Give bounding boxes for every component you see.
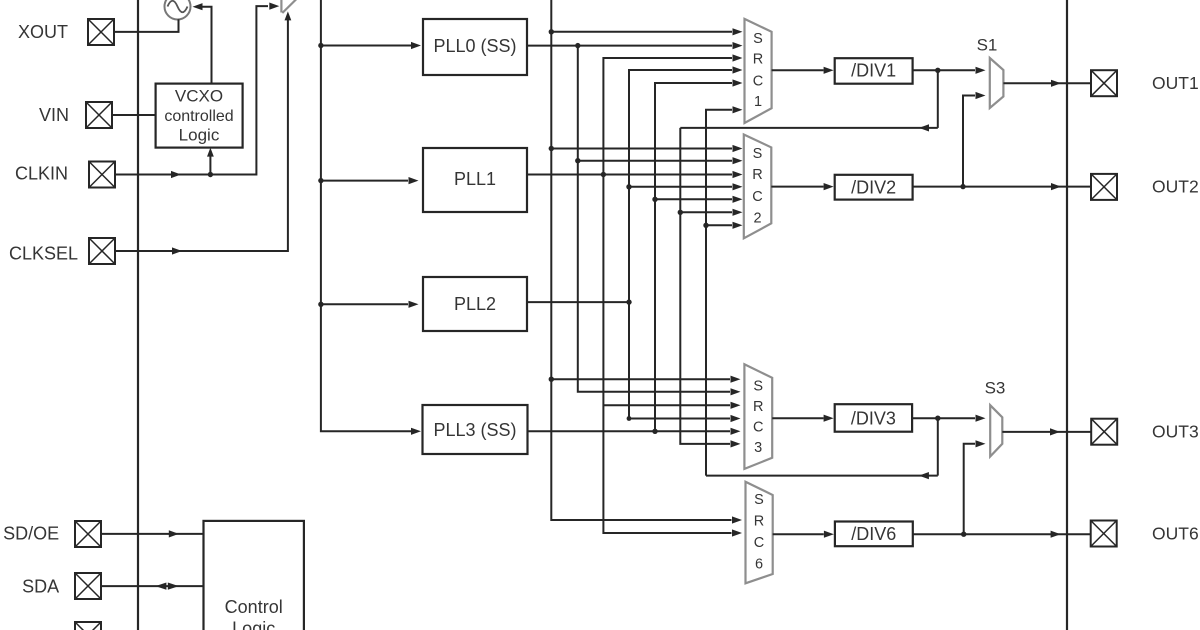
clock select switch [281,0,296,13]
junction ref/PLL2 [318,302,323,307]
reference clock bus to SRC muxes [551,0,742,524]
svg-text:S: S [753,146,763,162]
PLL2 block [423,277,527,331]
wire PLL0 drop to SRC3 [578,46,741,396]
wire PLL1 output to SRC2 [527,171,743,178]
pin CLKIN [89,162,115,188]
wire PLL1 riser to SRC1 [603,54,742,174]
junction ref/SRC1 [549,29,554,34]
label OUT1 [1152,73,1199,93]
wire ref to SRC2 [551,145,742,152]
PLL1 block [423,148,527,212]
junction CLKIN / VCXO input [208,172,213,177]
Control Logic block [204,521,304,630]
junction PLL1 bus [601,172,606,177]
mux SRC2 [744,135,772,239]
wire PLL0 to SRC2 [578,157,743,164]
pin OUT2 [1091,174,1117,200]
svg-text:VCXO: VCXO [175,87,223,106]
junction ref/SRC3 [549,377,554,382]
svg-text:Logic: Logic [179,125,220,144]
divider /DIV3 [835,404,912,432]
pin SDA [75,573,101,599]
wire PLL3 riser to SRC1 [655,79,743,431]
svg-text:XOUT: XOUT [18,22,68,42]
wire PLL1 branch to SRC3 [603,402,740,409]
wire S1 to OUT1 [1003,80,1091,87]
svg-text:controlled: controlled [164,108,233,125]
label OUT2 [1152,177,1199,197]
wire S3 to OUT3 [1002,428,1091,435]
svg-text:C: C [752,189,762,205]
pin OUT6 [1091,521,1117,547]
divider /DIV6 [835,522,913,547]
label OUT3 [1152,422,1199,442]
wire S1 feedback left [680,124,938,131]
svg-text:/DIV6: /DIV6 [851,524,896,544]
svg-text:SDA: SDA [22,576,59,596]
svg-text:6: 6 [755,557,763,573]
wire SD/OE to control logic [101,530,204,537]
wire S1 feedback down [937,70,939,128]
mux SRC3 [744,364,772,469]
pin VIN [86,102,112,128]
label S1 [977,35,998,54]
wire ref to SRC1 [551,28,742,35]
junction PLL0/SRC2 [575,158,580,163]
wire S3 feedback left [706,472,938,479]
svg-text:PLL1: PLL1 [454,169,496,189]
svg-text:PLL2: PLL2 [454,294,496,314]
svg-text:OUT2: OUT2 [1152,177,1199,197]
junction PLL2 bus [626,299,631,304]
junction ref/PLL0 [318,43,323,48]
divider /DIV1 [835,58,913,83]
svg-text:R: R [752,167,762,183]
junction /DIV2 output [960,184,965,189]
svg-text:CLKSEL: CLKSEL [9,244,78,264]
wire ref to PLL0 input [321,42,421,49]
wire S3 feedback down [937,418,939,475]
svg-text:PLL3 (SS): PLL3 (SS) [433,420,516,440]
svg-text:3: 3 [754,440,762,456]
label SD/OE [3,523,59,543]
svg-text:PLL0 (SS): PLL0 (SS) [433,36,516,56]
wire PLL2 output [527,301,629,303]
pin CLKSEL [89,238,115,264]
mux SRC1 [745,19,772,123]
pin XOUT [88,19,114,45]
label SDA [22,576,59,596]
svg-text:C: C [753,73,763,89]
VCXO controlled Logic block [156,84,243,148]
wire PLL3 output to SRC3 [527,428,741,435]
mux S3 [990,405,1002,456]
chip boundary left edge [137,0,139,630]
svg-text:S1: S1 [977,35,998,54]
junction ref/PLL1 [318,178,323,183]
wire feedback branch to SRC2 input7 [706,222,743,229]
label VIN [39,105,69,125]
svg-text:C: C [753,419,763,435]
label OUT6 [1152,524,1199,544]
wire SDA to control logic [101,583,204,590]
wire ref to PLL2 input [321,301,419,308]
junction feedback/SRC2 input7 [703,223,708,228]
crystal oscillator [165,0,191,20]
junction /DIV1 output [935,68,940,73]
pin SCL (clipped) [75,622,101,630]
pin SD/OE [75,521,101,547]
svg-text:S3: S3 [985,378,1006,397]
svg-text:C: C [754,535,764,551]
junction PLL2/SRC2 [626,184,631,189]
wire PLL2 drop to SRC3 [629,302,741,422]
wire /DIV6 branch to S3 [964,440,986,534]
wire SRC2 to /DIV2 [771,183,833,190]
pin OUT3 [1091,419,1117,445]
wire XOUT to oscillator [114,19,179,32]
divider /DIV2 [835,175,913,200]
wire S1 feedback drop to SRC3 [680,128,740,448]
junction feedback/SRC2 input6 [678,210,683,215]
junction PLL3 riser [652,429,657,434]
wire SRC1 to /DIV1 [772,67,834,74]
wire PLL2 to SRC2 [629,183,743,190]
wire /DIV1 to S1 [913,67,986,74]
wire PLL2 riser to SRC1 [629,66,743,302]
junction /DIV6 output [961,532,966,537]
wire SRC3 to /DIV3 [772,415,833,422]
svg-text:CLKIN: CLKIN [15,164,68,184]
label CLKIN [15,164,68,184]
svg-text:/DIV3: /DIV3 [851,408,896,428]
wire PLL3 to SRC2 [655,196,743,203]
PLL3 (SS) block [423,405,528,454]
wire ref to SRC3 [551,376,740,383]
svg-text:S: S [753,31,763,47]
svg-text:OUT3: OUT3 [1152,422,1199,442]
svg-text:OUT1: OUT1 [1152,73,1199,93]
wire /DIV2 to OUT2 [913,183,1091,190]
wire VIN to VCXO logic [112,114,156,116]
reference clock bus to PLL inputs [321,0,421,435]
svg-text:Control: Control [225,597,283,617]
svg-text:2: 2 [753,211,761,227]
svg-text:S: S [754,492,764,508]
svg-text:OUT6: OUT6 [1152,524,1199,544]
wire CLKIN to clock switch [115,3,279,179]
svg-text:R: R [754,514,764,530]
wire PLL1 drop to SRC6 [603,175,742,537]
wire CLKSEL to switch [115,11,291,254]
svg-text:Logic: Logic [232,619,275,630]
wire PLL0 output to SRC1 [527,42,743,49]
svg-text:S: S [753,378,763,394]
junction PLL2 drop corner [627,416,632,421]
svg-text:1: 1 [754,94,762,110]
wire SRC6 to /DIV6 [773,531,834,538]
label XOUT [18,22,68,42]
junction /DIV3 output [935,416,940,421]
wire /DIV3 to S3 [912,415,985,422]
mux S1 [990,58,1004,108]
wire S3 feedback riser to SRC1 [706,106,743,475]
chip boundary right edge [1066,0,1068,630]
junction PLL0 drop [575,43,580,48]
wire /DIV2 branch to S1 [963,92,986,187]
svg-text:SD/OE: SD/OE [3,523,59,543]
svg-text:R: R [753,399,763,415]
junction PLL3/SRC2 [652,197,657,202]
wire feedback branch to SRC2 [680,209,742,216]
svg-text:/DIV2: /DIV2 [851,177,896,197]
svg-text:VIN: VIN [39,105,69,125]
wire /DIV6 to OUT6 [913,531,1091,538]
svg-text:/DIV1: /DIV1 [851,60,896,80]
junction ref/SRC2 [549,146,554,151]
PLL0 (SS) block [423,19,527,75]
label S3 [985,378,1006,397]
label CLKSEL [9,244,78,264]
mux SRC6 [746,482,773,584]
wire CLKIN junction to VCXO logic [207,148,214,175]
wire ref to PLL1 input [321,177,419,184]
wire VCXO logic to oscillator [193,3,212,84]
svg-text:R: R [753,52,763,68]
pin OUT1 [1091,70,1117,96]
